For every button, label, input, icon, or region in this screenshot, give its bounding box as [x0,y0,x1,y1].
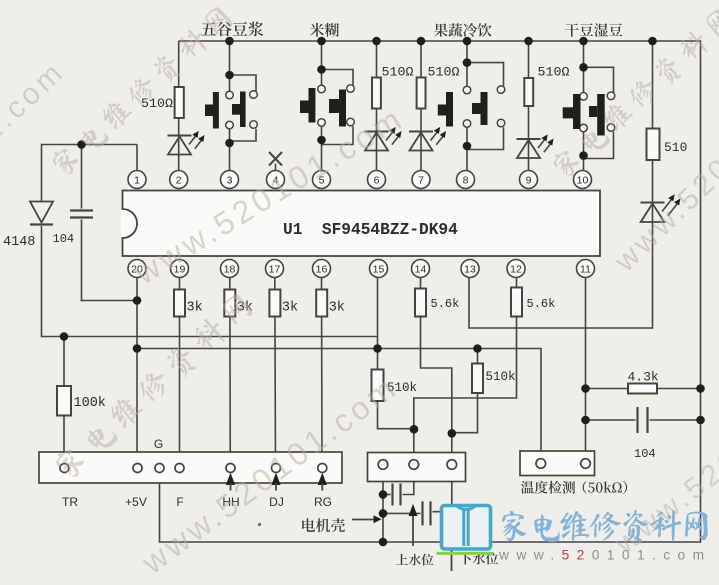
svg-text:TR: TR [62,495,78,509]
svg-text:510Ω: 510Ω [428,65,460,80]
svg-text:14: 14 [415,263,427,275]
svg-text:3: 3 [227,174,233,186]
svg-text:+5V: +5V [125,495,147,509]
svg-text:510Ω: 510Ω [382,65,414,80]
svg-text:15: 15 [373,263,385,275]
svg-text:5.6k: 5.6k [431,297,460,311]
svg-text:U1 SF9454BZZ-DK94: U1 SF9454BZZ-DK94 [283,221,458,239]
svg-text:510: 510 [664,140,687,155]
svg-text:13: 13 [464,263,476,275]
svg-text:2: 2 [176,174,182,186]
svg-text:12: 12 [510,263,522,275]
svg-text:3k: 3k [329,301,345,316]
svg-text:G: G [154,437,163,451]
svg-text:510Ω: 510Ω [141,96,173,111]
svg-text:www.520101.com: www.520101.com [498,548,712,563]
svg-text:9: 9 [526,174,532,186]
svg-text:18: 18 [224,263,236,275]
svg-text:104: 104 [53,232,75,246]
svg-text:5.6k: 5.6k [527,297,556,311]
svg-text:17: 17 [269,263,281,275]
svg-text:8: 8 [463,174,469,186]
svg-text:RG: RG [314,495,332,509]
svg-text:3k: 3k [187,301,203,316]
svg-text:1: 1 [134,174,140,186]
svg-text:510Ω: 510Ω [538,65,570,80]
svg-text:3k: 3k [282,301,298,316]
svg-text:104: 104 [634,447,656,461]
svg-text:DJ: DJ [269,495,284,509]
svg-text:F: F [176,495,183,509]
svg-text:4148: 4148 [3,235,35,250]
svg-text:16: 16 [316,263,328,275]
svg-text:6: 6 [374,174,380,186]
svg-text:11: 11 [580,263,591,275]
svg-text:100k: 100k [74,396,106,411]
svg-text:7: 7 [418,174,424,186]
svg-text:10: 10 [577,174,589,186]
svg-text:510k: 510k [486,370,516,384]
svg-text:4.3k: 4.3k [628,370,659,385]
